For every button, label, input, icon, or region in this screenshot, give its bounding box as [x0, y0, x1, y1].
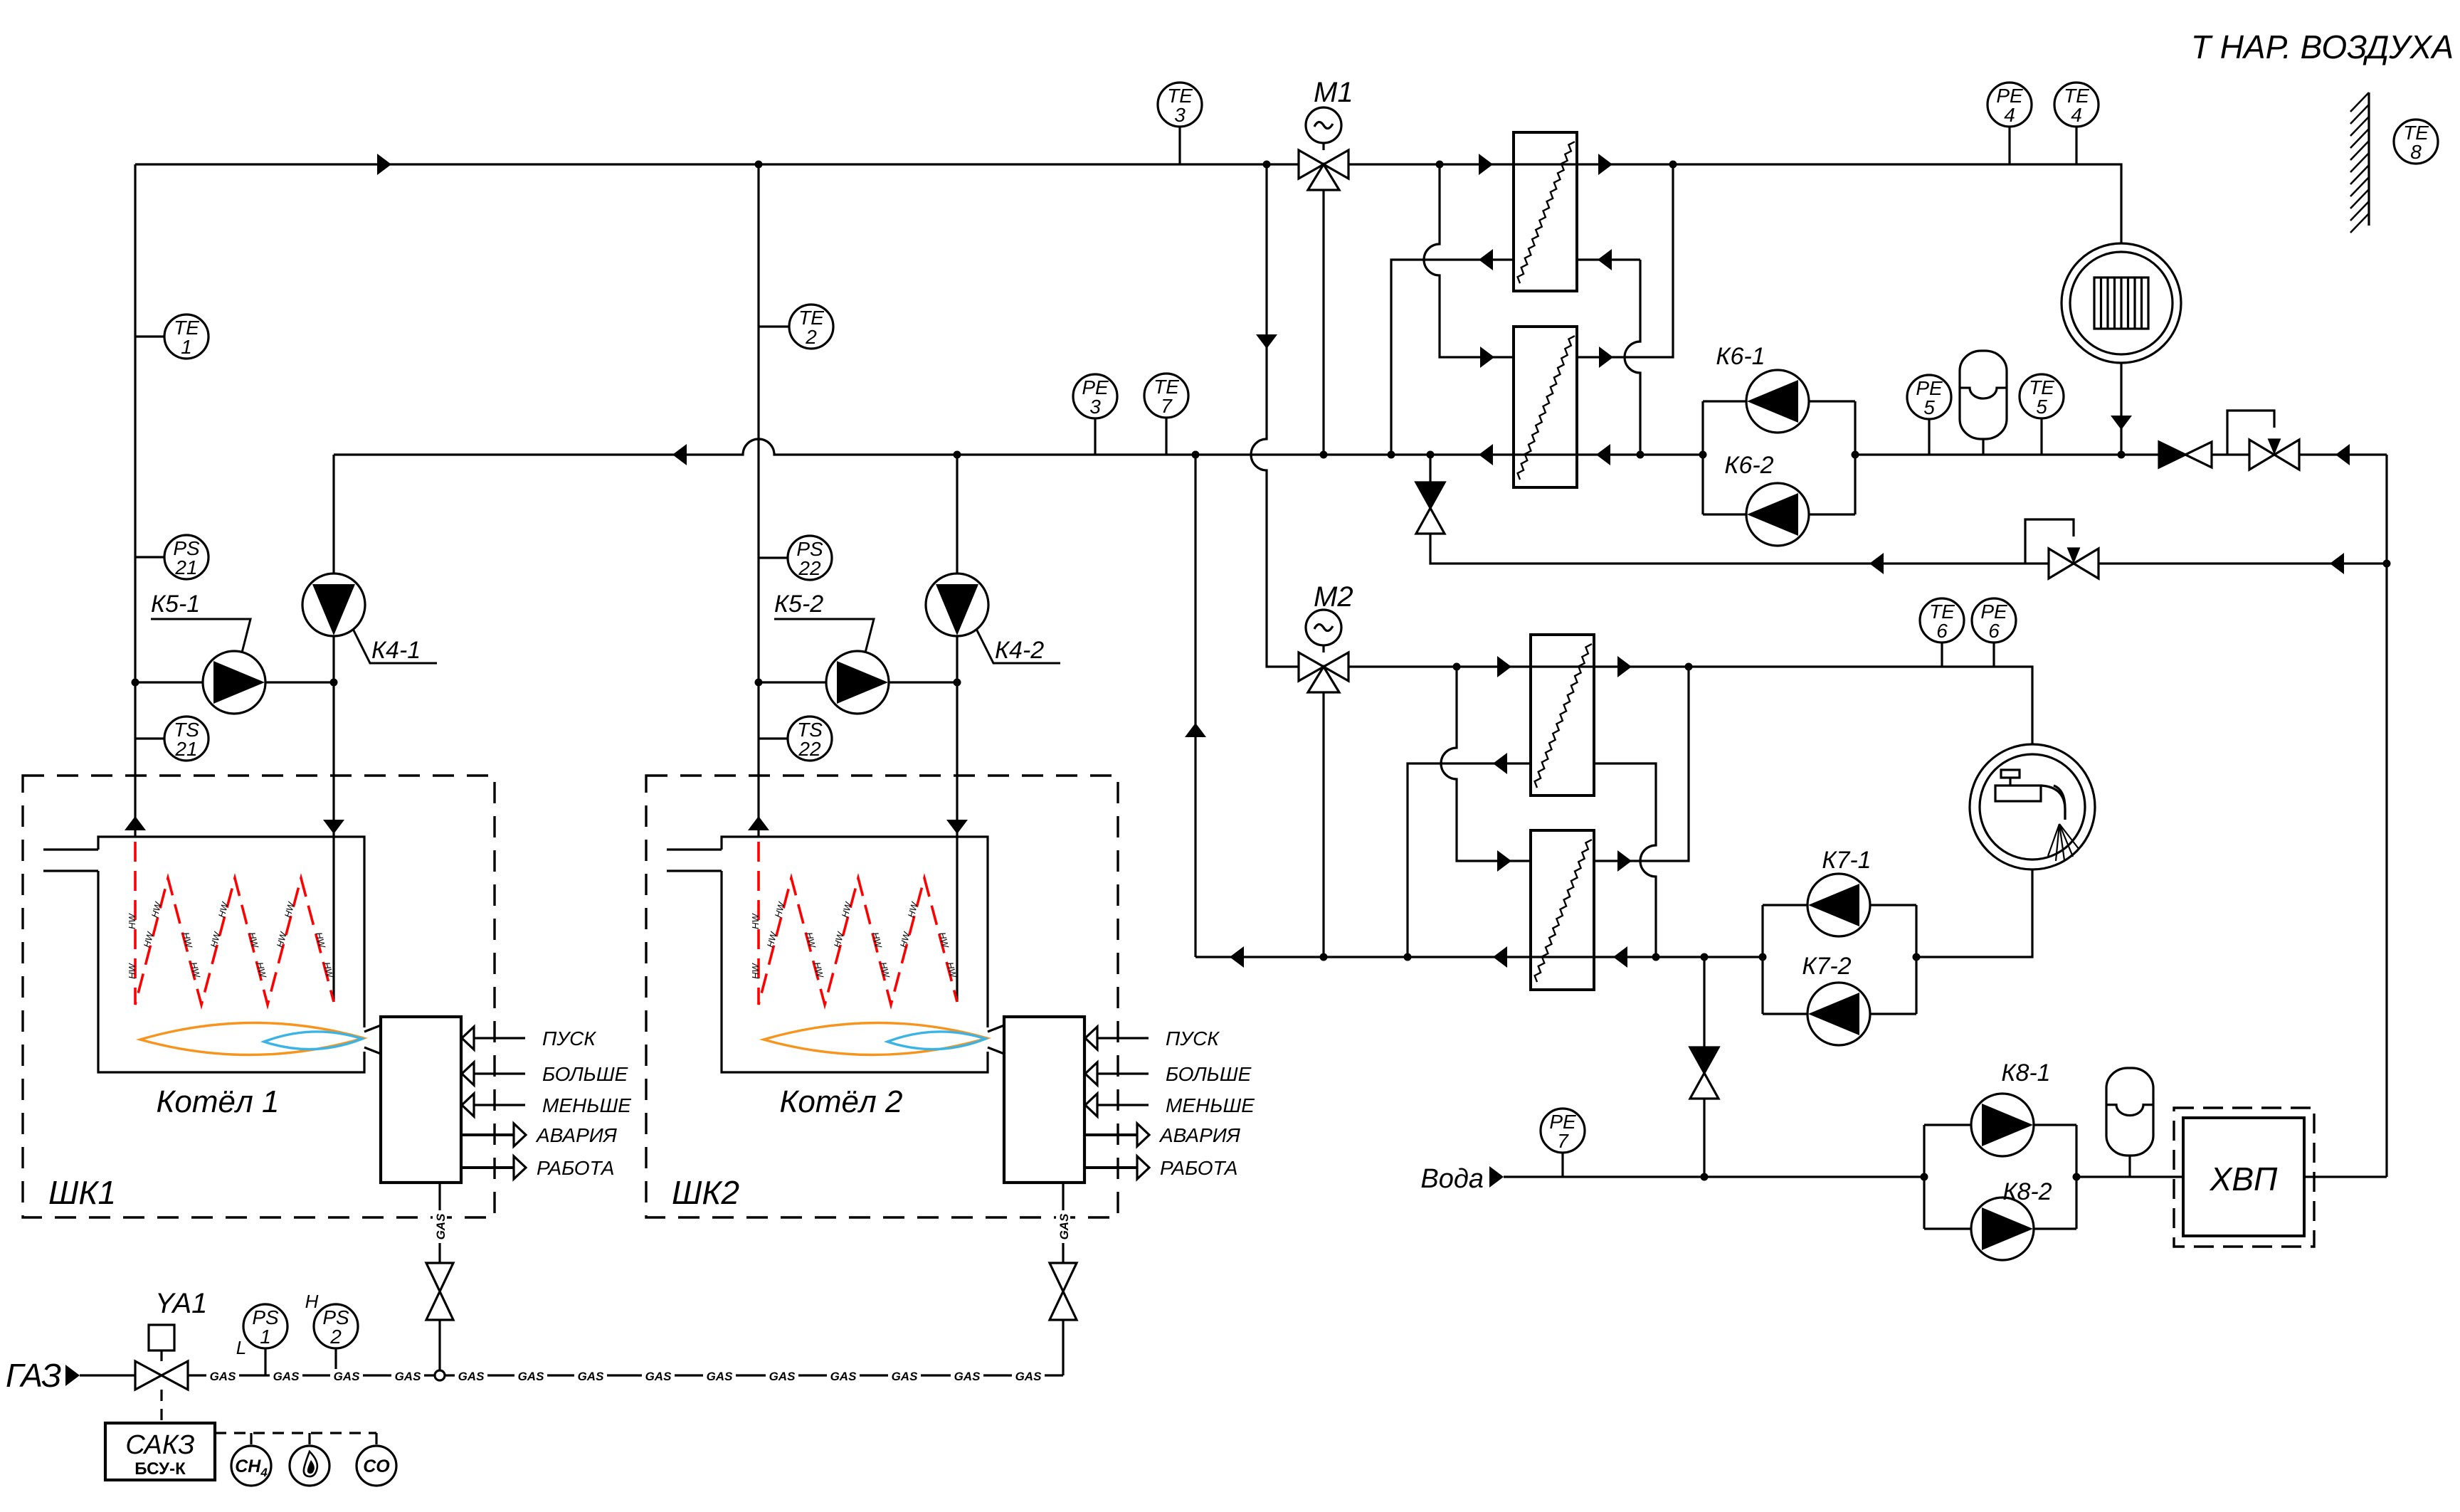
svg-text:4: 4 — [2071, 104, 2082, 126]
svg-text:МЕНЬШЕ: МЕНЬШЕ — [1166, 1094, 1255, 1116]
svg-text:РАБОТА: РАБОТА — [537, 1157, 614, 1179]
svg-text:РАБОТА: РАБОТА — [1160, 1157, 1237, 1179]
svg-text:МЕНЬШЕ: МЕНЬШЕ — [542, 1094, 631, 1116]
svg-text:GAS: GAS — [210, 1370, 237, 1383]
svg-text:ШК2: ШК2 — [672, 1174, 739, 1211]
svg-text:3: 3 — [1174, 104, 1186, 126]
svg-text:YA1: YA1 — [155, 1288, 207, 1319]
svg-text:GAS: GAS — [707, 1370, 734, 1383]
svg-text:6: 6 — [1988, 620, 2000, 642]
svg-text:GAS: GAS — [892, 1370, 919, 1383]
svg-text:АВАРИЯ: АВАРИЯ — [1158, 1124, 1241, 1146]
svg-text:ГАЗ: ГАЗ — [6, 1357, 61, 1394]
svg-text:К8-1: К8-1 — [2001, 1059, 2050, 1087]
svg-text:GAS: GAS — [334, 1370, 361, 1383]
svg-text:21: 21 — [174, 738, 197, 760]
svg-text:1: 1 — [260, 1326, 271, 1348]
svg-text:К5-2: К5-2 — [774, 591, 823, 618]
svg-text:M2: M2 — [1314, 581, 1353, 613]
svg-text:ХВП: ХВП — [2210, 1161, 2278, 1198]
svg-text:К7-2: К7-2 — [1802, 953, 1851, 980]
svg-text:HW: HW — [750, 912, 761, 929]
svg-text:К8-2: К8-2 — [2002, 1178, 2052, 1205]
svg-text:БОЛЬШЕ: БОЛЬШЕ — [1166, 1063, 1252, 1085]
svg-text:GAS: GAS — [830, 1370, 857, 1383]
svg-text:Котёл 1: Котёл 1 — [156, 1084, 279, 1119]
svg-text:6: 6 — [1936, 620, 1948, 642]
svg-text:GAS: GAS — [769, 1370, 796, 1383]
svg-text:ПУСК: ПУСК — [542, 1027, 596, 1050]
svg-text:H: H — [305, 1291, 319, 1312]
svg-text:Т НАР. ВОЗДУХА: Т НАР. ВОЗДУХА — [2191, 28, 2454, 65]
svg-text:HW: HW — [127, 962, 137, 978]
svg-text:2: 2 — [805, 326, 817, 348]
svg-text:21: 21 — [174, 556, 197, 578]
svg-text:БОЛЬШЕ: БОЛЬШЕ — [542, 1063, 628, 1085]
svg-text:GAS: GAS — [578, 1370, 605, 1383]
svg-text:GAS: GAS — [458, 1370, 485, 1383]
svg-text:1: 1 — [181, 336, 192, 358]
svg-text:АВАРИЯ: АВАРИЯ — [535, 1124, 618, 1146]
svg-text:К4-1: К4-1 — [371, 637, 421, 664]
svg-text:GAS: GAS — [395, 1370, 422, 1383]
svg-text:К7-1: К7-1 — [1822, 847, 1871, 874]
svg-text:GAS: GAS — [518, 1370, 545, 1383]
svg-text:ШК1: ШК1 — [48, 1174, 116, 1211]
svg-text:22: 22 — [798, 557, 821, 579]
svg-text:7: 7 — [1557, 1130, 1569, 1152]
svg-text:К5-1: К5-1 — [151, 591, 200, 618]
svg-text:К4-2: К4-2 — [995, 637, 1044, 664]
svg-text:БСУ-К: БСУ-К — [134, 1459, 186, 1479]
svg-text:7: 7 — [1161, 395, 1173, 417]
svg-text:5: 5 — [1923, 396, 1935, 418]
svg-text:HW: HW — [127, 912, 137, 929]
svg-text:ПУСК: ПУСК — [1166, 1027, 1220, 1050]
svg-text:GAS: GAS — [434, 1213, 448, 1240]
svg-text:GAS: GAS — [273, 1370, 300, 1383]
svg-text:L: L — [236, 1337, 246, 1358]
svg-text:M1: M1 — [1314, 77, 1353, 108]
svg-text:3: 3 — [1089, 396, 1101, 418]
svg-text:К6-2: К6-2 — [1724, 452, 1773, 479]
svg-text:GAS: GAS — [645, 1370, 672, 1383]
svg-text:Котёл 2: Котёл 2 — [779, 1084, 902, 1119]
svg-text:CO: CO — [363, 1457, 390, 1476]
svg-text:22: 22 — [798, 738, 821, 760]
svg-text:2: 2 — [329, 1326, 342, 1348]
svg-text:GAS: GAS — [1057, 1213, 1071, 1240]
svg-text:4: 4 — [2004, 104, 2015, 126]
svg-text:К6-1: К6-1 — [1716, 343, 1765, 370]
svg-text:Вода: Вода — [1420, 1164, 1484, 1194]
svg-text:HW: HW — [750, 962, 761, 978]
svg-text:GAS: GAS — [954, 1370, 981, 1383]
svg-text:САКЗ: САКЗ — [125, 1430, 194, 1460]
svg-text:5: 5 — [2036, 396, 2047, 418]
svg-text:GAS: GAS — [1015, 1370, 1042, 1383]
svg-text:8: 8 — [2410, 141, 2422, 163]
